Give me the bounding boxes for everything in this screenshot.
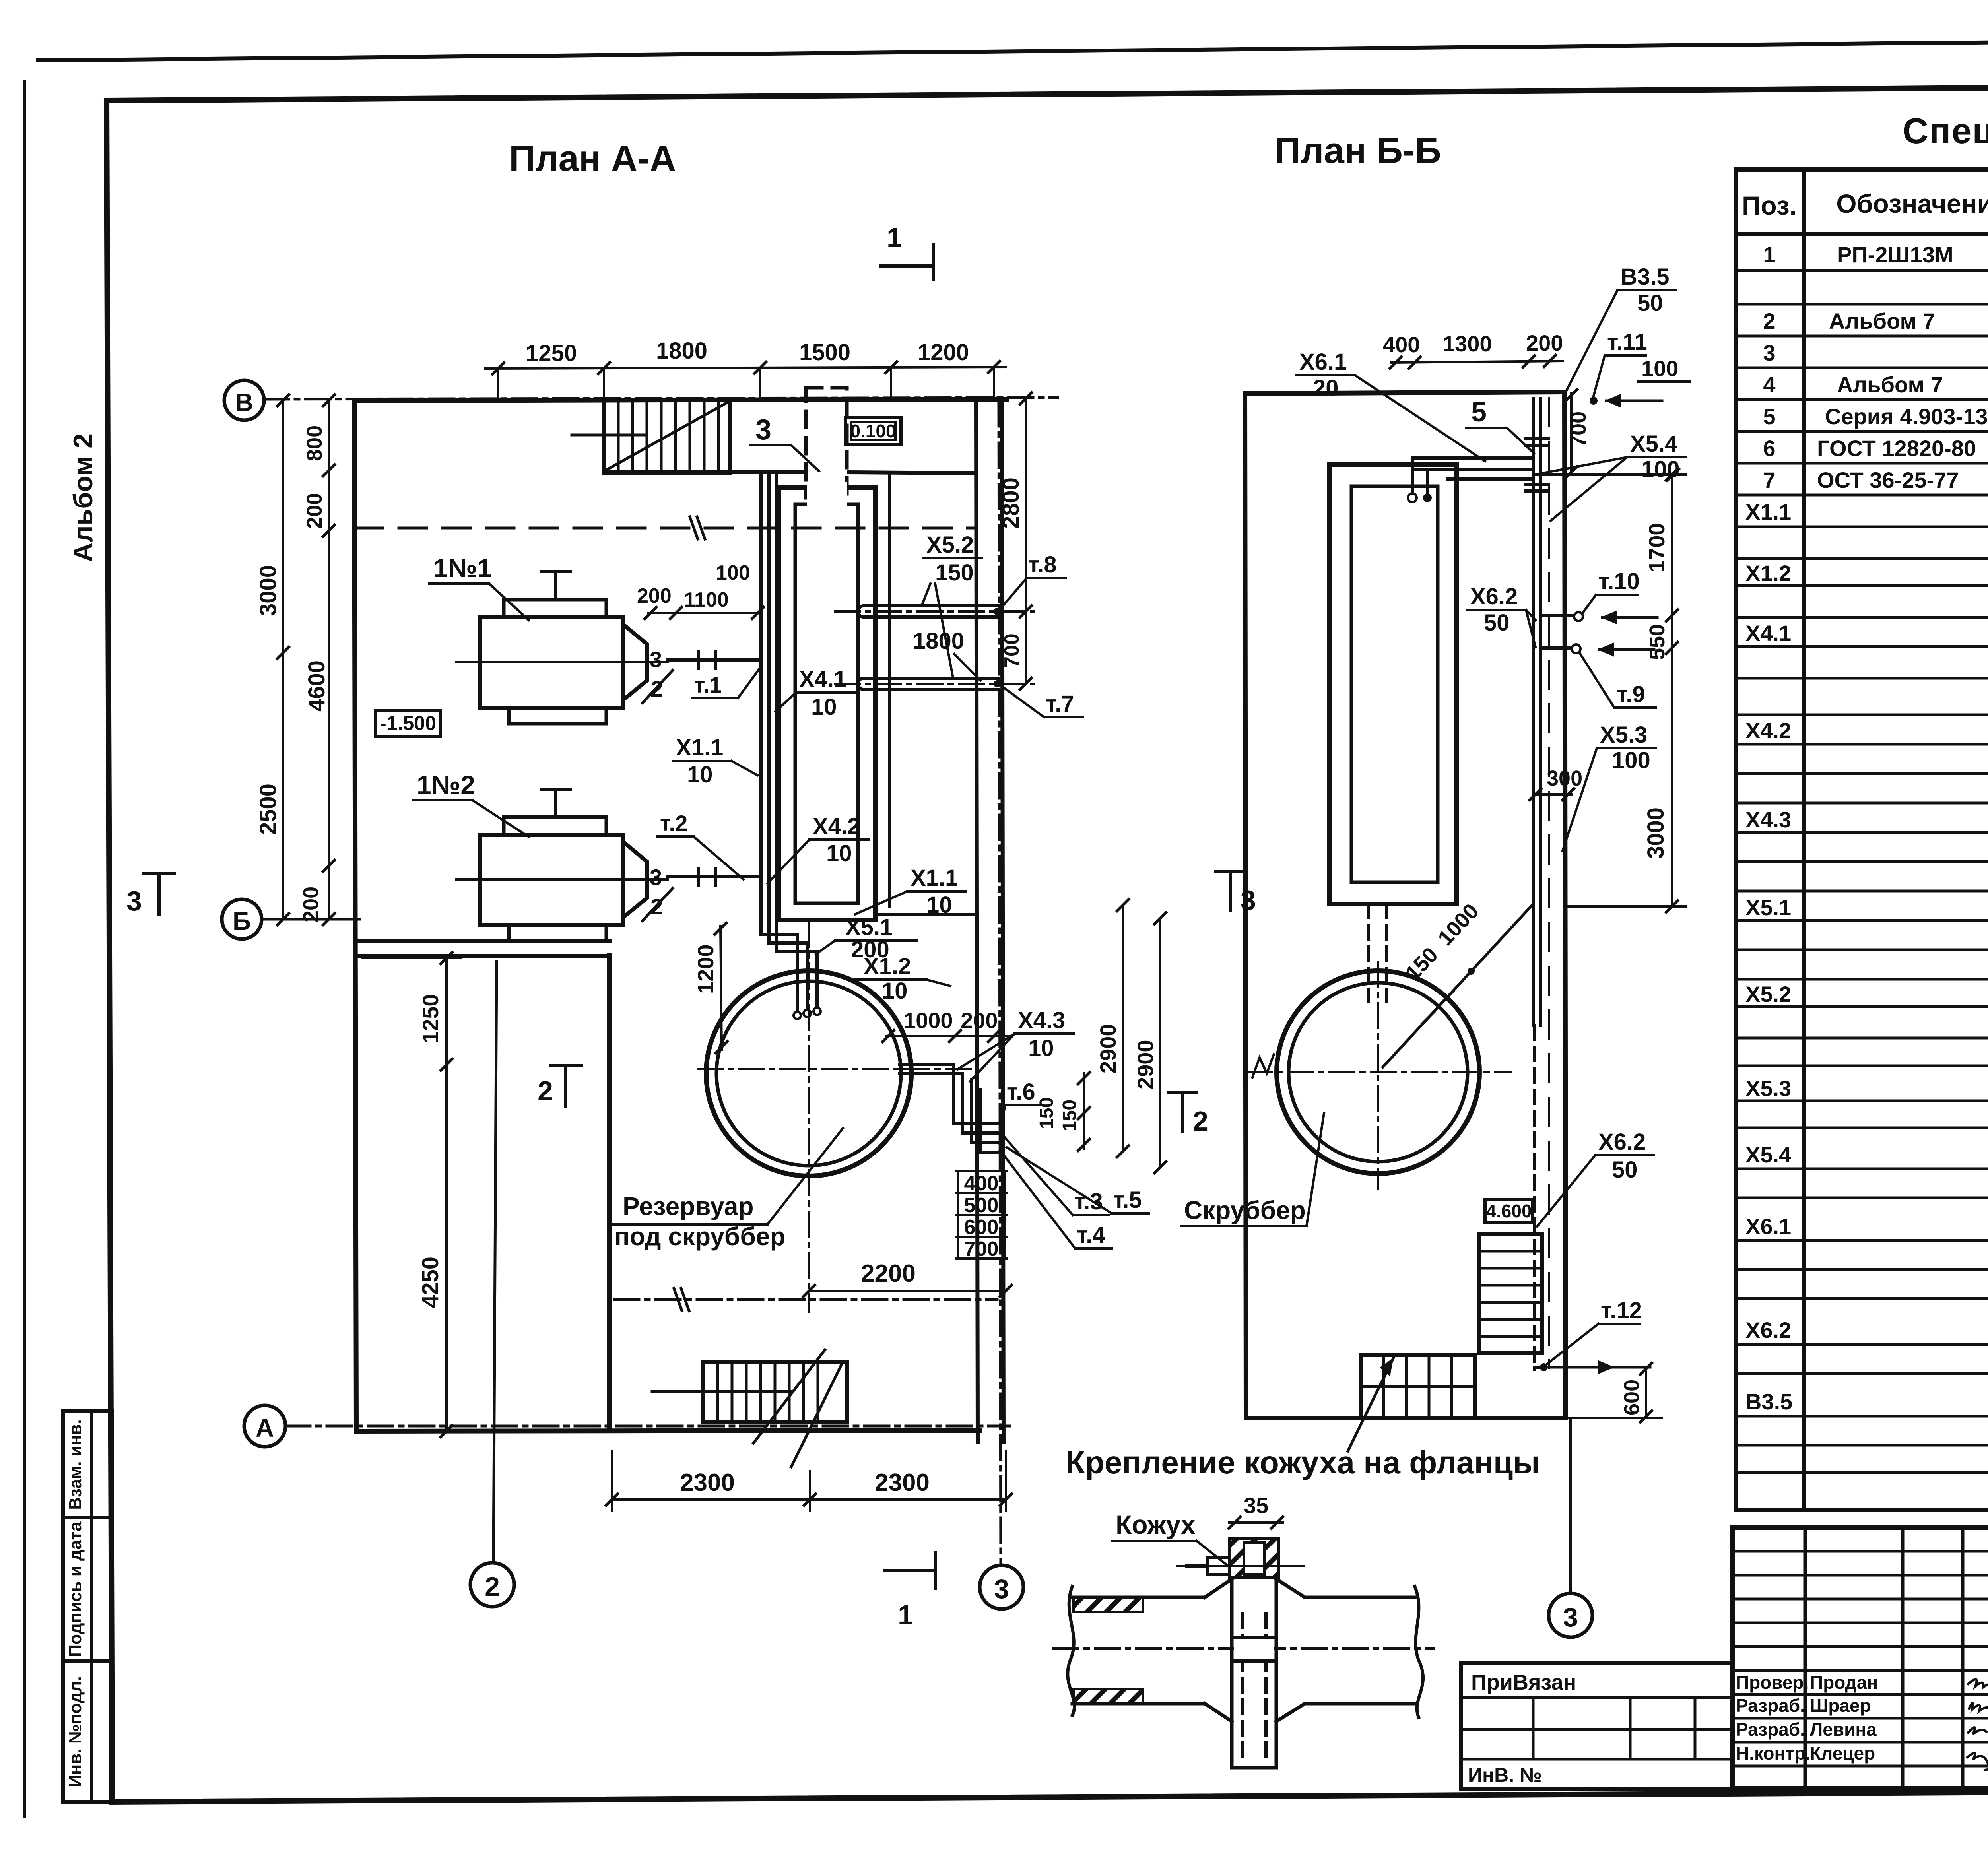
BB right wall (1565, 392, 1566, 1418)
dim chain left inner 800 200 4600 200 (328, 400, 330, 919)
svg-text:ИнВ. №: ИнВ. № (1468, 1764, 1542, 1786)
svg-text:1250: 1250 (526, 340, 577, 366)
svg-text:1800: 1800 (913, 628, 964, 654)
svg-text:-1.500: -1.500 (380, 712, 436, 734)
pipe riser bundle (761, 475, 797, 1012)
axis circle B (224, 380, 264, 420)
pipe lower edge left (1072, 1702, 1205, 1706)
svg-text:Левина: Левина (1810, 1719, 1877, 1740)
svg-text:50: 50 (1612, 1157, 1638, 1183)
dim 700 vertical (1570, 394, 1573, 474)
svg-text:300: 300 (1547, 766, 1582, 790)
top outer border (38, 37, 1988, 60)
svg-text:5: 5 (1471, 396, 1487, 427)
axis B line (264, 398, 1058, 399)
bottom wall (356, 1430, 980, 1431)
svg-text:2: 2 (538, 1075, 553, 1106)
point t.11 and arrow (1590, 397, 1598, 405)
svg-text:Подпись и дата: Подпись и дата (66, 1521, 85, 1657)
right wall double (976, 399, 978, 1442)
bottom dim 2300 2300 (612, 1498, 1006, 1501)
svg-text:т.8: т.8 (1028, 552, 1057, 578)
svg-text:План А-А: План А-А (509, 138, 676, 179)
svg-text:20: 20 (1313, 375, 1339, 401)
upper pipes t8 t7 (835, 606, 1034, 617)
svg-text:т.10: т.10 (1598, 569, 1640, 594)
svg-text:2: 2 (1193, 1106, 1208, 1137)
svg-text:Крепление кожуха на фланцы: Крепление кожуха на фланцы (1066, 1445, 1540, 1480)
axis A line (285, 1425, 1010, 1428)
svg-text:150: 150 (935, 560, 974, 586)
svg-text:Х6.2: Х6.2 (1745, 1318, 1791, 1343)
svg-text:1700: 1700 (1644, 523, 1669, 572)
BB bottom wall (1246, 1416, 1566, 1420)
svg-text:под скруббер: под скруббер (614, 1222, 786, 1251)
axis circle A (244, 1405, 285, 1447)
svg-text:10: 10 (1028, 1035, 1054, 1061)
svg-text:Х6.1: Х6.1 (1299, 349, 1347, 375)
axis 2 line (493, 961, 497, 1562)
svg-text:Х1.1: Х1.1 (1745, 499, 1791, 524)
svg-text:5: 5 (1763, 404, 1775, 429)
axis break marks (690, 517, 698, 539)
dashed duct pos.3 (806, 388, 847, 498)
interior wall lower room (607, 956, 612, 1430)
svg-text:Продан: Продан (1810, 1672, 1878, 1693)
svg-text:200: 200 (1526, 330, 1563, 355)
pipe drops with ends (1411, 458, 1414, 492)
svg-text:Х6.1: Х6.1 (1745, 1214, 1791, 1239)
svg-text:ГОСТ 12820-80: ГОСТ 12820-80 (1817, 436, 1976, 461)
reservoir centerlines (698, 1068, 978, 1070)
svg-text:Разраб.: Разраб. (1736, 1719, 1805, 1740)
svg-text:500: 500 (964, 1194, 999, 1217)
svg-text:1500: 1500 (799, 340, 850, 365)
svg-text:Х1.2: Х1.2 (864, 953, 911, 979)
svg-text:Х1.1: Х1.1 (676, 735, 723, 761)
axis circle 2 (470, 1563, 514, 1607)
svg-text:В3.5: В3.5 (1621, 264, 1670, 290)
top dim chain 1250 1800 1500 1200 (485, 367, 1006, 369)
diagonal dim 150 1000 (1383, 904, 1533, 1067)
table frame (1736, 170, 1988, 1510)
svg-text:т.5: т.5 (1113, 1187, 1142, 1213)
svg-text:550: 550 (1645, 624, 1669, 660)
svg-text:10: 10 (687, 762, 713, 788)
svg-text:4: 4 (1763, 372, 1775, 397)
dashed pipes tank to scrubber (1367, 904, 1370, 1002)
svg-text:РП-2Ш13М: РП-2Ш13М (1837, 242, 1953, 267)
dim chain 1250 4250 (445, 958, 448, 1431)
svg-text:2200: 2200 (861, 1260, 916, 1287)
left grid verticals (1804, 1527, 1807, 1789)
svg-text:800: 800 (303, 425, 326, 461)
svg-text:1300: 1300 (1442, 331, 1492, 356)
svg-text:3000: 3000 (1643, 807, 1669, 859)
svg-text:3: 3 (755, 414, 771, 446)
svg-text:1200: 1200 (918, 340, 969, 365)
svg-text:т.11: т.11 (1607, 329, 1647, 355)
svg-text:1100: 1100 (684, 588, 729, 611)
svg-text:2300: 2300 (680, 1469, 735, 1496)
axis circle Б (222, 899, 262, 939)
svg-text:700: 700 (1567, 411, 1590, 447)
svg-text:Шраер: Шраер (1810, 1695, 1871, 1716)
svg-text:50: 50 (1637, 290, 1663, 316)
row lines (1736, 270, 1988, 1473)
svg-text:1250: 1250 (418, 994, 443, 1044)
mid double wall (355, 939, 610, 943)
signatures (1968, 1679, 1988, 1687)
svg-text:4250: 4250 (417, 1257, 443, 1308)
svg-text:т.1: т.1 (694, 672, 722, 697)
interior wall line x2237 (888, 473, 891, 906)
svg-text:150: 150 (1036, 1097, 1057, 1129)
svg-text:2800: 2800 (998, 477, 1024, 529)
svg-text:ОСТ 36-25-77: ОСТ 36-25-77 (1817, 468, 1959, 493)
flange hump right (1276, 1579, 1415, 1721)
scrubber circle (1277, 971, 1479, 1174)
header line (1736, 232, 1988, 236)
svg-text:1800: 1800 (656, 338, 707, 364)
svg-text:Х5.3: Х5.3 (1600, 722, 1647, 748)
svg-text:Кожух: Кожух (1116, 1510, 1196, 1539)
svg-text:Альбом 2: Альбом 2 (68, 433, 98, 562)
svg-text:600: 600 (1620, 1380, 1644, 1415)
svg-text:0.100: 0.100 (850, 421, 896, 441)
upper stairs (572, 400, 730, 473)
svg-text:т.12: т.12 (1601, 1298, 1642, 1323)
TITLES (509, 111, 1988, 179)
tank under scrubber (pit) (779, 487, 875, 920)
svg-text:т.6: т.6 (1007, 1079, 1035, 1105)
main stamp frame (1732, 1527, 1988, 1789)
svg-text:Обозначение: Обозначение (1836, 189, 1988, 218)
svg-text:10: 10 (811, 694, 837, 720)
svg-text:35: 35 (1244, 1493, 1268, 1518)
svg-text:А: А (256, 1414, 274, 1442)
horizontal pipes tank to column (1412, 456, 1533, 460)
svg-text:Резервуар: Резервуар (623, 1192, 754, 1220)
right pipe column (1532, 398, 1535, 1026)
pipe centerline (1054, 1647, 1434, 1650)
svg-text:50: 50 (1484, 610, 1510, 636)
dim line under X5.4 (1533, 473, 1686, 476)
svg-text:Б: Б (233, 907, 251, 935)
svg-text:2300: 2300 (875, 1469, 930, 1496)
right dim chain 1700 550 3000 (1671, 475, 1673, 906)
svg-text:ПриВязан: ПриВязан (1471, 1671, 1576, 1694)
svg-text:Спецификация: Спецификация (1903, 111, 1988, 151)
connector unit1 (668, 652, 759, 669)
svg-text:3: 3 (650, 647, 662, 672)
svg-text:т.9: т.9 (1617, 681, 1645, 707)
stamp strip (63, 1411, 112, 1802)
column lines (1802, 170, 1806, 1510)
svg-text:План Б-Б: План Б-Б (1274, 130, 1441, 171)
scale unit 1N1 (456, 572, 668, 724)
svg-text:В: В (235, 388, 253, 417)
axis 3 line (999, 402, 1001, 1565)
svg-text:100: 100 (1612, 747, 1650, 773)
pipe flanges (1525, 437, 1548, 440)
point t.12 (1540, 1363, 1548, 1371)
BB stairs vertical (1479, 1234, 1542, 1353)
svg-text:Провер.: Провер. (1736, 1672, 1809, 1693)
stub t.10 (1540, 614, 1574, 617)
slot at centerline (1234, 1637, 1274, 1661)
svg-text:3: 3 (1563, 1602, 1578, 1632)
sheet edge line left (23, 81, 26, 1816)
svg-text:6: 6 (1763, 436, 1775, 461)
level mark 4.600 (1485, 1200, 1533, 1223)
svg-text:Х5.4: Х5.4 (1745, 1142, 1791, 1167)
left break line (1068, 1586, 1074, 1715)
svg-text:Х4.1: Х4.1 (799, 666, 846, 692)
svg-text:Х4.2: Х4.2 (1745, 718, 1791, 743)
svg-text:Инв. №подл.: Инв. №подл. (66, 1676, 85, 1787)
svg-text:10: 10 (926, 892, 952, 918)
left grid rows (1732, 1551, 1988, 1766)
svg-text:Х4.3: Х4.3 (1018, 1007, 1065, 1033)
BB stairs plan lower-left (1348, 1355, 1475, 1451)
svg-text:3: 3 (650, 865, 662, 890)
BB top wall (1245, 392, 1565, 394)
pipe upper edge left (1072, 1596, 1205, 1599)
flange hump left (1205, 1579, 1232, 1721)
svg-text:400: 400 (1383, 332, 1420, 357)
scrubber centerlines (1247, 1071, 1511, 1073)
svg-text:1: 1 (898, 1599, 913, 1630)
level mark 0.100 (845, 417, 901, 444)
interior axis dashed (355, 527, 976, 530)
pipe from circle to cluster (899, 1065, 999, 1123)
section mark T2 (1168, 1091, 1197, 1094)
LEFT MARGIN (63, 433, 112, 1802)
svg-text:200: 200 (303, 493, 326, 529)
svg-text:2: 2 (485, 1572, 500, 1602)
svg-text:Клецер: Клецер (1810, 1743, 1875, 1764)
svg-text:100: 100 (1641, 356, 1678, 381)
svg-text:700: 700 (1000, 633, 1023, 668)
svg-text:Альбом 7: Альбом 7 (1829, 309, 1935, 334)
svg-text:Х5.2: Х5.2 (926, 532, 974, 558)
nut block hatched (1229, 1538, 1279, 1578)
svg-text:Поз.: Поз. (1742, 191, 1797, 220)
svg-text:Н.контр.: Н.контр. (1736, 1743, 1811, 1764)
svg-text:1000: 1000 (903, 1008, 953, 1033)
BB left wall (1245, 394, 1246, 1418)
svg-text:Х6.2: Х6.2 (1598, 1129, 1646, 1155)
svg-text:Разраб.: Разраб. (1736, 1695, 1805, 1716)
svg-text:4.600: 4.600 (1486, 1201, 1532, 1221)
svg-text:Х4.1: Х4.1 (1745, 621, 1791, 646)
scale unit 1N2 (456, 789, 668, 941)
dim 600 (1645, 1367, 1647, 1418)
table body texts (1745, 242, 1988, 1444)
reservoir circle (706, 971, 911, 1176)
svg-text:Х1.2: Х1.2 (1745, 561, 1791, 586)
right break line (1415, 1586, 1423, 1717)
hatched wall stubs (1074, 1597, 1143, 1612)
stub t.9 (1540, 646, 1571, 650)
svg-text:1: 1 (1763, 242, 1775, 267)
svg-text:т.4: т.4 (1077, 1222, 1105, 1248)
svg-text:400: 400 (964, 1172, 999, 1195)
svg-text:100: 100 (1641, 456, 1680, 482)
BB tank outer (1330, 464, 1456, 904)
bolt left (1207, 1558, 1229, 1574)
svg-text:10: 10 (826, 840, 852, 866)
interior wall below stairs (604, 470, 803, 474)
svg-text:т.7: т.7 (1046, 691, 1074, 717)
dim 2200 (809, 1290, 1006, 1292)
svg-text:1№1: 1№1 (433, 553, 492, 583)
svg-text:Х6.2: Х6.2 (1470, 584, 1518, 609)
dim 2800 700 right (1025, 398, 1027, 684)
svg-text:10: 10 (882, 978, 908, 1004)
svg-text:3000: 3000 (255, 565, 281, 616)
axis circle 3 BB (1549, 1593, 1592, 1637)
svg-text:200: 200 (637, 584, 672, 607)
svg-text:2900: 2900 (1095, 1024, 1120, 1073)
BB tank inner (1351, 486, 1438, 882)
level mark -1.500 (376, 711, 440, 736)
top dims 400 1300 200 (1392, 361, 1563, 363)
break mark on centerline (1252, 1054, 1274, 1077)
svg-text:2500: 2500 (255, 784, 281, 835)
svg-text:3: 3 (126, 885, 142, 916)
svg-text:200: 200 (299, 887, 323, 922)
svg-text:1: 1 (887, 222, 902, 253)
lower axis line (614, 1298, 997, 1301)
svg-text:Серия 4.903-13: Серия 4.903-13 (1825, 404, 1988, 429)
top wall (354, 399, 1007, 401)
svg-text:Х4.2: Х4.2 (813, 813, 860, 839)
svg-text:Х4.3: Х4.3 (1745, 807, 1791, 832)
svg-text:3: 3 (1763, 340, 1775, 365)
svg-text:3: 3 (1241, 885, 1256, 916)
dim chain left outer 3000 2500 (282, 400, 284, 919)
svg-text:2: 2 (650, 894, 663, 919)
svg-text:2900: 2900 (1133, 1040, 1158, 1089)
svg-text:2: 2 (650, 676, 663, 701)
svg-text:Х5.2: Х5.2 (1745, 982, 1791, 1007)
left wall (354, 401, 356, 1431)
svg-text:Х1.1: Х1.1 (911, 865, 958, 891)
svg-text:700: 700 (964, 1238, 999, 1261)
svg-text:3: 3 (994, 1574, 1009, 1604)
svg-text:150: 150 (1059, 1100, 1080, 1131)
svg-text:Х5.4: Х5.4 (1630, 431, 1677, 457)
svg-text:В3.5: В3.5 (1745, 1389, 1792, 1414)
stud column (1230, 1575, 1234, 1768)
section mark 1 bottom (884, 1569, 935, 1572)
privyazan block (1461, 1663, 1732, 1789)
section mark T3 (1216, 870, 1244, 873)
svg-text:1№2: 1№2 (417, 770, 475, 799)
svg-text:Х5.1: Х5.1 (1745, 895, 1791, 920)
svg-text:Х5.3: Х5.3 (1745, 1076, 1791, 1101)
svg-text:600: 600 (964, 1216, 999, 1239)
axis circle 3 (980, 1565, 1023, 1609)
lower stairs (652, 1350, 847, 1467)
svg-text:Взам. инв.: Взам. инв. (66, 1419, 85, 1510)
svg-text:Скруббер: Скруббер (1184, 1196, 1306, 1224)
stacked dims 400 500 600 700 (956, 1171, 1007, 1261)
svg-text:1200: 1200 (693, 944, 718, 994)
svg-text:2: 2 (1763, 309, 1775, 334)
svg-text:4600: 4600 (304, 660, 330, 712)
svg-text:7: 7 (1763, 468, 1775, 493)
svg-text:т.2: т.2 (660, 811, 687, 836)
svg-text:Альбом 7: Альбом 7 (1837, 372, 1943, 397)
svg-text:200: 200 (961, 1008, 998, 1033)
svg-text:100: 100 (716, 561, 750, 584)
dim 2900 2900 (1122, 905, 1124, 1151)
dim 1200 vertical (720, 926, 722, 1050)
